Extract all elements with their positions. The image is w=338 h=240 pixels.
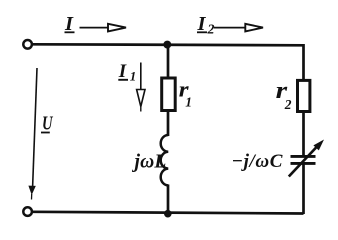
svg-text:2: 2 xyxy=(207,22,215,37)
svg-text:2: 2 xyxy=(284,97,292,112)
svg-text:jωL: jωL xyxy=(132,151,167,172)
svg-text:−j/ωC: −j/ωC xyxy=(232,151,283,172)
svg-text:1: 1 xyxy=(130,69,137,84)
svg-text:U: U xyxy=(42,112,54,134)
svg-text:1: 1 xyxy=(185,94,192,109)
